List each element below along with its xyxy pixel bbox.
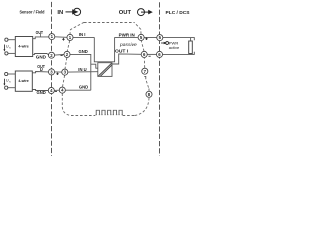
boundary terminal 6 bbox=[156, 51, 162, 57]
wire PWR IN: terminal 5 to B1 bbox=[115, 36, 138, 38]
switch S3 bbox=[108, 110, 111, 114]
4-wire transmitter box 2 bbox=[15, 71, 32, 91]
svg-text:Sensor / Field: Sensor / Field bbox=[20, 10, 45, 15]
module terminal 7 bbox=[142, 68, 148, 74]
wire module terminal 1 into module (IN I) bbox=[73, 36, 94, 38]
solid jog below terminal 7 bbox=[144, 76, 146, 79]
module terminal 1 bbox=[67, 34, 73, 40]
boundary terminal 3 bbox=[48, 69, 54, 75]
svg-text:IN: IN bbox=[57, 10, 63, 16]
svg-text:PWR IN: PWR IN bbox=[119, 32, 135, 37]
module terminal 2 bbox=[64, 51, 70, 57]
svg-text:4-wire: 4-wire bbox=[18, 45, 28, 49]
svg-text:OUT: OUT bbox=[119, 10, 132, 16]
terminal digits bbox=[50, 34, 162, 97]
minus at module terminal 6 bbox=[149, 55, 151, 57]
wire GND2 to terminal 4 bbox=[32, 90, 48, 91]
right zone boundary dashed line bbox=[159, 2, 161, 156]
OUT symbol (circle with arrow out) bbox=[138, 9, 149, 16]
wire boundary2 to module terminal 2 bbox=[55, 54, 64, 57]
down arrow supply 2 bbox=[3, 79, 5, 84]
wire OUT2 to terminal 3 bbox=[32, 72, 48, 73]
PWR active symbol (arrow into circle) bbox=[161, 42, 164, 44]
wire terminal 6 to boundary 6 bbox=[148, 53, 157, 55]
wire terminal 5 to boundary 5 bbox=[144, 36, 156, 38]
wire boundary1 to module terminal 1 bbox=[55, 36, 67, 39]
plus at module terminal 5 bbox=[145, 38, 147, 40]
IN symbol (arrow into circle) bbox=[66, 8, 81, 15]
svg-text:IN I: IN I bbox=[79, 32, 86, 37]
wire module terminal 2 into module GND staircase bbox=[70, 54, 91, 90]
svg-text:GND: GND bbox=[79, 49, 88, 54]
switch S2 bbox=[102, 110, 105, 114]
4-wire transmitter box 1 bbox=[15, 37, 32, 57]
load loop top wire bbox=[163, 38, 194, 41]
module terminal 3 bbox=[62, 69, 68, 75]
terminal circles with digits bbox=[48, 34, 163, 98]
switch S4 bbox=[113, 110, 116, 114]
minus at module terminal 2 bbox=[61, 55, 63, 57]
wire OUT1 to terminal 1 bbox=[33, 37, 49, 39]
module terminal 6 bbox=[141, 51, 147, 57]
svg-text:active: active bbox=[169, 46, 180, 50]
minus at module terminal 4 bbox=[55, 91, 57, 93]
polarity marks bbox=[55, 38, 151, 92]
sensor supply terminal circles (open) bbox=[5, 38, 8, 89]
isolation amplifier B2 with diagonal bbox=[98, 63, 112, 77]
plus at module terminal 3 bbox=[56, 73, 58, 75]
wire module terminal 3 to isolator (IN U) bbox=[68, 71, 98, 73]
load loop bottom wire bbox=[163, 52, 195, 55]
left zone boundary dashed line bbox=[51, 2, 53, 156]
switch S5 bbox=[119, 110, 122, 114]
svg-text:s: s bbox=[9, 46, 11, 49]
down arrow supply 1 bbox=[3, 45, 5, 50]
solid stub above terminal 8 bbox=[148, 89, 150, 92]
svg-text:PWR: PWR bbox=[169, 42, 179, 46]
boundary terminal 1 bbox=[49, 34, 55, 40]
svg-text:4-wire: 4-wire bbox=[18, 79, 28, 83]
module terminal 5 bbox=[138, 34, 144, 40]
svg-text:GND: GND bbox=[79, 84, 88, 89]
boundary terminal 5 bbox=[157, 35, 163, 41]
module terminal 4 bbox=[59, 87, 65, 93]
module terminal 8 bbox=[146, 91, 152, 97]
svg-text:s: s bbox=[9, 81, 11, 84]
svg-text:OUT I: OUT I bbox=[115, 48, 128, 53]
module dashed outline bbox=[62, 22, 149, 115]
wire GND1 to terminal 2 bbox=[33, 54, 49, 55]
wire boundary3 to module terminal 3 bbox=[55, 71, 62, 73]
load resistor bbox=[189, 41, 193, 54]
wire OUT I: B2 to terminal 6 bbox=[112, 54, 141, 64]
svg-text:GND: GND bbox=[36, 55, 46, 60]
svg-text:passive: passive bbox=[119, 42, 137, 47]
wires from supply circles to box 1 bbox=[8, 40, 15, 88]
switch S1 bbox=[96, 110, 99, 114]
svg-text:IN U: IN U bbox=[78, 67, 86, 72]
wire module terminal 4 up to GND staircase bbox=[66, 89, 91, 91]
DIP switches row bbox=[96, 110, 123, 114]
plus at module terminal 1 bbox=[62, 38, 65, 41]
svg-text:PLC / DCS: PLC / DCS bbox=[166, 10, 190, 15]
boundary terminal 2 bbox=[48, 52, 54, 58]
boundary terminal 4 bbox=[48, 87, 54, 93]
inner block B1 (open-top U shape) bbox=[94, 37, 114, 61]
wire boundary4 to module terminal 4 bbox=[55, 89, 59, 91]
